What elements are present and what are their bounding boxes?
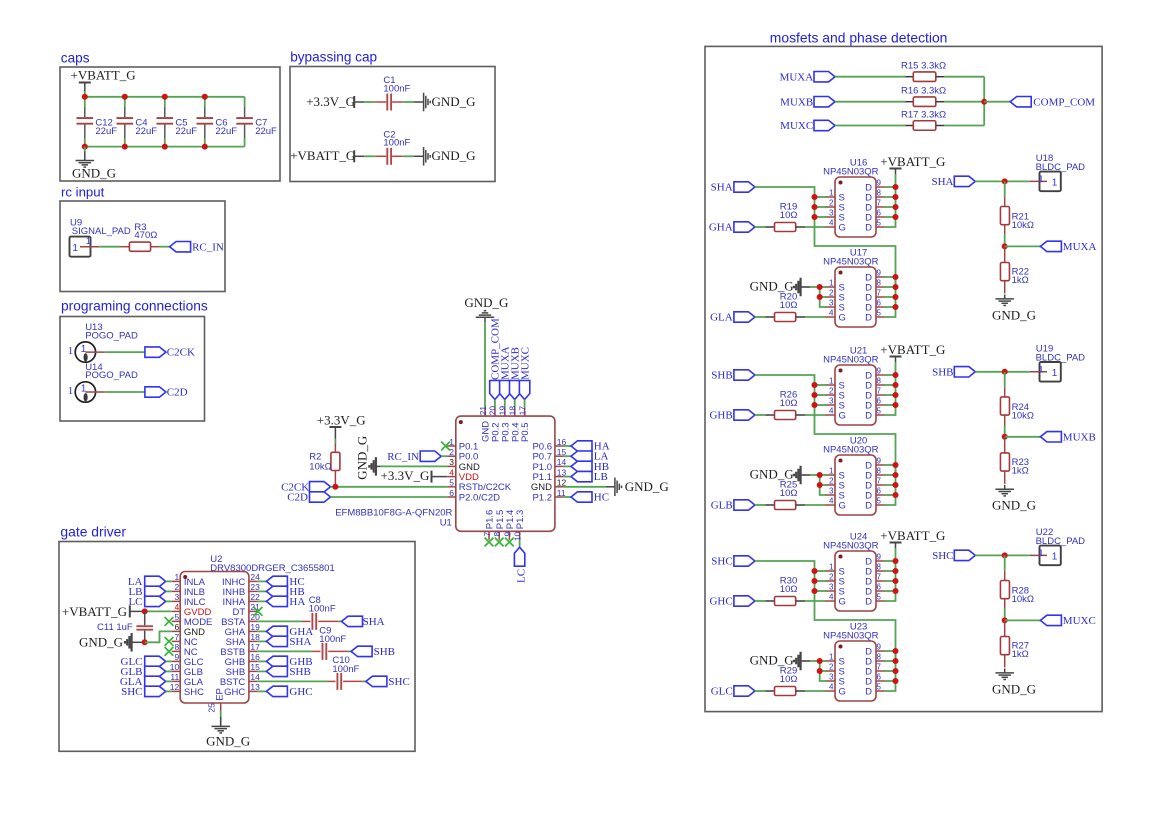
svg-text:SHC: SHC [932,550,953,562]
svg-text:8: 8 [492,532,502,537]
junction [1002,369,1008,375]
svg-text:GLA: GLA [710,312,733,324]
net flag SHB [257,670,266,672]
svg-text:SHC: SHC [184,687,204,698]
svg-text:9: 9 [174,652,179,662]
svg-text:1: 1 [86,236,91,246]
pin 1 of U14 [85,391,105,393]
svg-text:+VBATT_G: +VBATT_G [62,604,127,619]
svg-text:GND_G: GND_G [464,295,508,310]
wire pin21 to ground [484,322,486,407]
svg-text:DRV8300DRGER_C3655801: DRV8300DRGER_C3655801 [210,563,334,574]
svg-text:1: 1 [829,377,834,386]
svg-text:5: 5 [877,593,882,602]
svg-text:470Ω: 470Ω [134,230,157,241]
svg-text:7: 7 [877,387,882,396]
svg-text:MUXC: MUXC [519,347,531,380]
svg-text:3: 3 [829,583,834,592]
wire [364,101,375,103]
resistor R24 10kohm [1004,372,1006,387]
right pins 9 8 7 6 5 of U23 [876,650,885,652]
net flag GHB [734,410,755,420]
svg-text:19: 19 [498,406,508,416]
net flag SHB (BSTB) [351,646,372,656]
wire source bus [820,287,827,307]
svg-text:+VBATT_G: +VBATT_G [71,68,136,83]
net flag GHC [257,690,266,692]
svg-text:MUXA: MUXA [780,71,814,83]
junction [1002,243,1008,249]
svg-text:rc input: rc input [61,185,105,200]
wire [975,180,1029,182]
transistor U21 NP45N03QR body [835,365,876,425]
svg-text:20: 20 [488,406,498,416]
svg-text:1: 1 [829,563,834,572]
svg-text:1kΩ: 1kΩ [1012,466,1029,477]
svg-text:7: 7 [877,663,882,672]
svg-text:10kΩ: 10kΩ [1012,594,1034,605]
top pins 21 20 19 18 17 of U1 [484,408,486,417]
net flag SHA (BSTA) [342,616,363,626]
svg-text:G: G [839,222,846,233]
svg-text:4: 4 [829,219,834,228]
svg-text:5: 5 [174,612,179,622]
svg-text:G: G [839,500,846,511]
svg-text:9: 9 [877,643,882,652]
net flag RC_IN [170,242,191,252]
net flag SHC (BSTC) [366,676,387,686]
svg-text:R15 3.3kΩ: R15 3.3kΩ [901,61,946,72]
net flag GHA [257,630,266,632]
svg-text:6: 6 [877,299,882,308]
svg-text:9: 9 [502,532,512,537]
svg-text:1: 1 [449,437,454,447]
wire top bus [85,96,245,98]
svg-text:2: 2 [829,199,834,208]
svg-text:MUXC: MUXC [1063,615,1096,627]
svg-text:6: 6 [877,487,882,496]
ground GND_G (pin 12) [563,486,606,488]
svg-text:1: 1 [81,344,87,355]
svg-text:100nF: 100nF [383,138,410,149]
ground GND_G [414,155,424,157]
no-connect X pins 7 8 NC [165,637,174,646]
svg-text:1: 1 [1038,174,1043,185]
svg-text:1: 1 [1038,548,1043,559]
svg-text:22uF: 22uF [175,126,197,137]
net flag HC [563,496,571,498]
net flag MUXB (pin 18) [510,381,520,400]
svg-text:RC_IN: RC_IN [387,451,419,463]
right pins of U2 [249,580,258,582]
svg-text:4: 4 [829,407,834,416]
svg-text:C2D: C2D [167,387,188,399]
svg-text:4: 4 [829,683,834,692]
wire drain bus [885,465,896,505]
net flag C2D [145,387,166,397]
svg-text:R17 3.3kΩ: R17 3.3kΩ [901,109,946,120]
svg-text:1: 1 [1052,368,1058,379]
svg-text:10Ω: 10Ω [780,584,798,595]
svg-text:7: 7 [174,632,179,642]
svg-text:6: 6 [174,622,179,632]
ground GND_G [84,147,86,152]
capacitor C2 100nF [375,155,386,157]
svg-text:NP45N03QR: NP45N03QR [823,257,879,268]
svg-text:GND_G: GND_G [992,681,1036,696]
net flag LA [563,455,571,457]
svg-text:17: 17 [517,406,527,416]
svg-text:LB: LB [594,471,608,483]
svg-text:LC: LC [515,569,527,583]
svg-text:COMP_COM: COMP_COM [1033,96,1095,108]
svg-text:2: 2 [829,289,834,298]
svg-text:6: 6 [877,673,882,682]
svg-text:P1.2: P1.2 [532,492,552,503]
svg-text:SHC: SHC [388,676,409,688]
wire [403,155,414,157]
svg-text:8: 8 [174,642,179,652]
wire drain bus [885,651,896,691]
svg-text:SHB: SHB [932,366,953,378]
svg-text:5: 5 [877,309,882,318]
svg-text:SHC: SHC [121,686,142,698]
svg-text:NP45N03QR: NP45N03QR [823,541,879,552]
left pins 1 2 3 of U24 [825,570,835,572]
svg-text:5: 5 [877,219,882,228]
net flag HC [257,580,266,582]
junction [82,94,88,100]
transistor U23 NP45N03QR body [835,641,876,701]
svg-text:SHA: SHA [363,616,385,628]
svg-text:1: 1 [829,653,834,662]
section frame: rc input [60,201,225,292]
resistor R21 10kohm [1004,181,1006,196]
wire GND to pin 6 [145,631,172,642]
capacitor C4 22uF [124,97,126,107]
svg-text:GND_G: GND_G [992,498,1036,513]
wire [944,101,984,103]
wire [99,246,120,248]
wire gate [805,316,825,318]
svg-text:4: 4 [829,309,834,318]
resistor R3 470ohm [120,246,129,248]
svg-text:D: D [865,410,872,421]
left pins 1 2 3 of U16 [825,196,835,198]
net flag MUXA (pin 19) [500,381,510,400]
IC U1 EFM8BB10F8G-A-QFN20R body [456,416,555,531]
svg-text:G: G [839,410,846,421]
svg-text:SHA: SHA [931,176,953,188]
svg-text:1: 1 [1038,365,1043,376]
resistor R28 10kohm [1004,555,1006,570]
wires flags to top pins [494,400,496,408]
net flag GHB [257,660,266,662]
svg-text:10kΩ: 10kΩ [1012,220,1034,231]
svg-text:1: 1 [829,467,834,476]
svg-text:7: 7 [877,573,882,582]
svg-text:10Ω: 10Ω [780,210,798,221]
svg-text:HC: HC [594,492,609,504]
svg-text:11: 11 [170,672,179,682]
svg-text:3: 3 [829,209,834,218]
svg-text:5: 5 [877,407,882,416]
svg-text:G: G [839,596,846,607]
svg-text:NP45N03QR: NP45N03QR [823,631,879,642]
section frame: gate driver [59,542,415,752]
left pins of U2 [172,580,181,582]
no-connect X pin 1 [447,445,456,447]
svg-text:10kΩ: 10kΩ [1012,411,1034,422]
net flag MUXA [1005,245,1041,247]
svg-text:1: 1 [81,384,87,395]
no-connect X pins 7 8 9 [485,538,494,547]
svg-text:C2CK: C2CK [167,347,195,359]
svg-text:P2.0/C2D: P2.0/C2D [459,492,500,503]
svg-text:3: 3 [449,457,454,467]
svg-text:3: 3 [829,299,834,308]
svg-text:GHC: GHC [709,596,732,608]
svg-text:GND_G: GND_G [72,166,116,181]
capacitor C12 22uF [84,97,86,107]
wire source bus [755,375,896,475]
right pins 9 8 7 6 5 of U21 [876,374,885,376]
svg-text:P1.3: P1.3 [515,510,526,530]
svg-text:caps: caps [61,51,90,66]
svg-text:7: 7 [877,289,882,298]
svg-text:D: D [865,686,872,697]
svg-text:GHB: GHB [709,410,732,422]
right pins of U1 [555,445,564,447]
svg-text:RC_IN: RC_IN [192,241,224,253]
wire source bus [820,475,827,495]
svg-text:+VBATT_G: +VBATT_G [880,528,945,543]
svg-text:NP45N03QR: NP45N03QR [823,445,879,456]
svg-text:22uF: 22uF [95,126,117,137]
wire bus to COMP_COM [983,77,985,126]
svg-text:10: 10 [513,532,523,542]
ground GND_G [1004,668,1006,672]
svg-text:2: 2 [174,582,179,592]
svg-text:mosfets and phase detection: mosfets and phase detection [770,30,948,46]
svg-text:GND_G: GND_G [432,148,476,163]
wire [105,351,145,353]
section frame: mosfets and phase detection [705,46,1102,711]
net flag SHA [257,640,266,642]
svg-text:22uF: 22uF [255,126,277,137]
svg-text:1kΩ: 1kΩ [1012,275,1029,286]
svg-text:SHB: SHB [289,666,310,678]
svg-text:8: 8 [877,189,882,198]
svg-text:+VBATT_G: +VBATT_G [880,342,945,357]
wire source bus [820,661,827,681]
svg-text:21: 21 [478,406,488,416]
net flag MUXB [1005,436,1041,438]
net flag LB [563,476,571,478]
wire gate [805,414,825,416]
svg-text:7: 7 [482,532,492,537]
wire [403,101,414,103]
svg-text:R16 3.3kΩ: R16 3.3kΩ [901,86,946,97]
svg-text:MUXB: MUXB [1063,432,1096,444]
svg-text:5: 5 [877,683,882,692]
svg-text:6: 6 [877,583,882,592]
svg-text:1: 1 [829,189,834,198]
svg-text:programing connections: programing connections [61,299,208,314]
svg-text:HA: HA [289,596,305,608]
svg-text:10Ω: 10Ω [780,488,798,499]
ground GND_G [414,101,424,103]
svg-text:100nF: 100nF [309,603,336,614]
right pins 9 8 7 6 5 of U24 [876,560,885,562]
svg-text:EFM8BB10F8G-A-QFN20R: EFM8BB10F8G-A-QFN20R [335,508,452,519]
junction [1002,552,1008,558]
capacitor C5 22uF [164,97,166,107]
svg-text:+3.3V_G: +3.3V_G [306,94,355,109]
svg-text:D: D [865,312,872,323]
junction [981,99,987,105]
wire gate [805,504,825,506]
section frame: programing connections [60,317,205,422]
svg-text:10Ω: 10Ω [780,398,798,409]
svg-text:bypassing cap: bypassing cap [290,50,377,65]
svg-text:SIGNAL_PAD: SIGNAL_PAD [72,226,131,237]
junction [202,94,208,100]
ground GND_G [1004,294,1006,298]
bottom pins 7 8 9 10 of U1 [488,531,490,540]
svg-text:10kΩ: 10kΩ [309,461,331,472]
transistor U16 NP45N03QR body [835,177,876,237]
svg-text:1: 1 [68,385,74,397]
svg-text:G: G [839,686,846,697]
svg-text:1kΩ: 1kΩ [1012,649,1029,660]
capacitor C1 100nF [375,101,386,103]
junction [1002,178,1008,184]
net flag GHA [734,222,755,232]
wire source bus [755,561,896,661]
svg-text:D: D [865,596,872,607]
svg-text:4: 4 [829,497,834,506]
svg-text:8: 8 [877,563,882,572]
right pins 9 8 7 6 5 of U17 [876,276,885,278]
svg-text:+VBATT_G: +VBATT_G [880,154,945,169]
right pins 9 8 7 6 5 of U16 [876,186,885,188]
svg-text:+3.3V_G: +3.3V_G [317,412,366,427]
junction [142,608,148,614]
svg-text:3: 3 [829,397,834,406]
wire [364,155,375,157]
svg-text:6: 6 [449,488,454,498]
svg-text:18: 18 [508,406,518,416]
section frame: caps [60,67,280,181]
wire gate [805,690,825,692]
junction [122,94,128,100]
svg-text:3: 3 [174,592,179,602]
svg-text:2: 2 [829,573,834,582]
svg-text:8: 8 [877,653,882,662]
svg-text:5: 5 [877,497,882,506]
svg-text:5: 5 [449,478,454,488]
wire [84,91,86,96]
svg-text:D: D [865,500,872,511]
transistor U17 NP45N03QR body [835,267,876,327]
net flag LC (pin 10) [519,540,521,547]
wire drain bus [885,561,896,601]
svg-text:GND_G: GND_G [79,635,123,650]
svg-text:1: 1 [1052,178,1058,189]
svg-text:1: 1 [174,572,179,582]
svg-text:GND_G: GND_G [206,733,250,748]
svg-text:6: 6 [877,397,882,406]
right pins 9 8 7 6 5 of U20 [876,464,885,466]
resistor R15 3.3kohm [835,76,905,78]
left pins 1 2 3 of U20 [825,474,835,476]
svg-text:9: 9 [877,269,882,278]
svg-text:22uF: 22uF [215,126,237,137]
svg-text:8: 8 [877,467,882,476]
svg-text:4: 4 [449,467,454,477]
svg-text:1: 1 [1052,552,1058,563]
svg-text:MUXB: MUXB [780,96,813,108]
left pins 1 2 3 of U23 [825,660,835,662]
svg-text:G: G [839,312,846,323]
net flag HA [563,445,571,447]
svg-text:GND_G: GND_G [992,307,1036,322]
svg-text:10Ω: 10Ω [780,300,798,311]
svg-text:P0.5: P0.5 [520,422,531,442]
net flag GHC [734,596,755,606]
left pins 1 2 3 of U17 [825,286,835,288]
svg-text:3: 3 [829,673,834,682]
svg-text:C11 1uF: C11 1uF [97,622,133,633]
net flag HB [563,465,571,467]
svg-text:GHA: GHA [709,222,733,234]
svg-text:SHA: SHA [289,636,311,648]
svg-text:+VBATT_G: +VBATT_G [290,148,355,163]
svg-text:8: 8 [877,279,882,288]
svg-text:2: 2 [829,477,834,486]
svg-text:7: 7 [877,199,882,208]
resistor R22 1kohm [1004,246,1006,262]
junction [1002,434,1008,440]
ground GND_G [1004,485,1006,489]
wire gate [805,600,825,602]
wire gate [805,226,825,228]
svg-text:GHC: GHC [289,686,312,698]
svg-text:3: 3 [829,487,834,496]
svg-text:SHB: SHB [374,646,395,658]
svg-text:GLB: GLB [711,500,733,512]
svg-text:25: 25 [206,703,216,713]
no-connect X pin 5 MODE [165,617,174,626]
svg-text:MUXC: MUXC [780,120,813,132]
net flag HA [257,600,266,602]
svg-text:C2D: C2D [287,491,308,503]
left pins 1 2 3 of U21 [825,384,835,386]
svg-text:POGO_PAD: POGO_PAD [85,330,138,341]
svg-text:100nF: 100nF [383,83,410,94]
svg-text:GLC: GLC [711,686,733,698]
no-connect X pin 21 DT [254,607,263,616]
svg-text:22uF: 22uF [135,126,157,137]
wire bottom bus [85,146,245,148]
net flag GLA [734,312,755,322]
svg-text:SHB: SHB [711,370,732,382]
svg-text:9: 9 [877,553,882,562]
svg-text:GND_G: GND_G [625,479,669,494]
svg-text:2: 2 [449,447,454,457]
net flag MUXC (pin 17) [519,381,529,400]
